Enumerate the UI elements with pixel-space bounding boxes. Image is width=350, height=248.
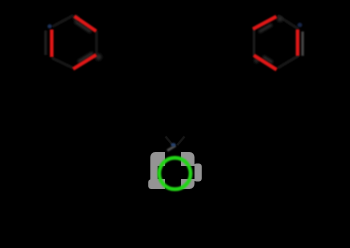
- atom N blue dot left: [48, 24, 52, 28]
- companion blob inner of right bottom red diagonal: [263, 57, 273, 63]
- right ring dark edge top-right: [278, 16, 299, 30]
- charge plus vertical bar: [165, 152, 181, 189]
- halo bottom-left bump: [148, 179, 158, 189]
- vertex smudge right ring lower-left: [254, 58, 259, 63]
- red bond left ring bottom-right diagonal: [73, 55, 96, 69]
- wire right arm near N: [177, 137, 184, 146]
- atom N blue dot right: [297, 23, 302, 27]
- atom N blue label center: [171, 143, 176, 147]
- halo main rounded rect: [150, 152, 194, 189]
- vertex smudge right ring top: [277, 16, 283, 22]
- right ring dark edge bottom-right: [278, 56, 299, 69]
- right ring dark edge left: [253, 29, 256, 57]
- red bond right ring right vertical: [296, 29, 300, 55]
- wire left arm near N: [166, 137, 173, 146]
- companion blob inner of right top red diagonal: [259, 25, 272, 33]
- companion blob inner of left bottom red diagonal: [78, 53, 93, 62]
- red bond right ring bottom-left diagonal: [254, 55, 277, 69]
- red bond right ring top-left diagonal: [253, 17, 277, 30]
- vertex smudge left ring lower-right: [95, 54, 102, 61]
- red bond left ring top-right diagonal: [74, 16, 96, 31]
- companion blob inner of left top red diagonal: [75, 21, 91, 32]
- red bond left ring left vertical: [50, 30, 54, 58]
- left ring dark edge right: [95, 31, 98, 55]
- left ring dark edge top-left: [53, 15, 74, 26]
- companion line outer of right red vertical: [301, 32, 304, 56]
- charge plus horizontal bar: [158, 166, 195, 179]
- vertex smudge left ring top: [73, 15, 79, 21]
- left ring dark edge bottom-left: [52, 58, 73, 68]
- companion line outer of left red vertical: [45, 31, 47, 56]
- halo right bump: [194, 164, 202, 182]
- charge circle green: [159, 158, 190, 189]
- gray streak bond into circled atom: [167, 146, 175, 151]
